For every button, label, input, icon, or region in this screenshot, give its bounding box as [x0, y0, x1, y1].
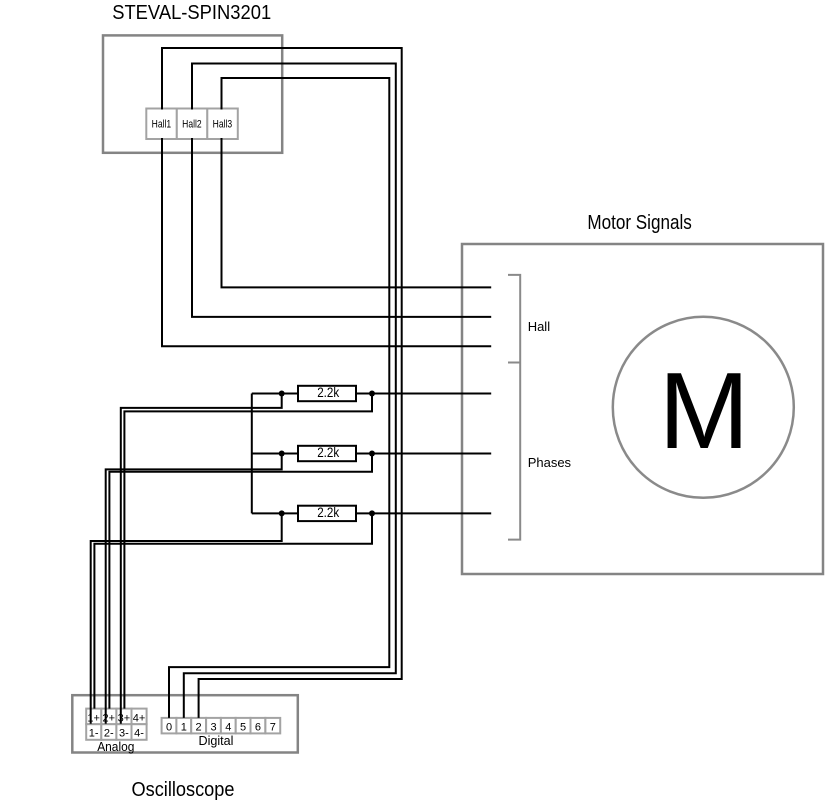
wire R2 right to scope 2+: [109, 454, 372, 709]
wire R3 right to scope 1+: [94, 513, 372, 708]
svg-text:2: 2: [196, 721, 202, 733]
STEVAL-SPIN3201 board box: [103, 35, 282, 152]
svg-text:Analog: Analog: [97, 739, 134, 754]
wire R1 right to scope 3+: [124, 394, 372, 709]
wire Hall2 bottom: down, right to motor Hall stub: [192, 138, 491, 317]
wire phase 2 to motor: [357, 453, 492, 455]
svg-text:6: 6: [255, 721, 261, 733]
wire R1 left to scope 3-: [121, 394, 282, 724]
wire Hall2 top: up, right, down, left to Digital 1: [184, 64, 396, 718]
svg-text:Oscilloscope: Oscilloscope: [132, 778, 235, 801]
bracket Hall/Phases: [508, 275, 520, 540]
Oscilloscope box: [72, 695, 297, 752]
wire phase 1 to motor: [357, 393, 492, 395]
wire Hall3 top: up, right, down, left to Digital 0: [169, 78, 389, 718]
junction dot R3 right: [369, 510, 375, 516]
resistor R2 2.2k: [298, 444, 356, 461]
svg-text:1+: 1+: [87, 712, 100, 724]
svg-text:3-: 3-: [119, 728, 129, 740]
svg-text:Hall1: Hall1: [152, 118, 172, 130]
svg-text:Motor Signals: Motor Signals: [587, 211, 692, 234]
svg-text:4+: 4+: [133, 712, 146, 724]
svg-text:2.2k: 2.2k: [317, 444, 340, 460]
wire phase 3 to motor: [357, 512, 492, 514]
svg-text:4: 4: [225, 721, 231, 733]
junction dot R3 left: [279, 510, 285, 516]
svg-text:M: M: [659, 350, 750, 472]
svg-text:Hall3: Hall3: [213, 118, 233, 130]
junction dot R2 right: [369, 451, 375, 457]
svg-text:3+: 3+: [118, 712, 131, 724]
wire R2 left to scope 2-: [106, 454, 282, 724]
wire Hall1 top: up, right, down, left to Digital 2: [162, 48, 402, 718]
svg-text:2.2k: 2.2k: [317, 384, 340, 400]
connector Hall3 pin cell: [207, 109, 238, 140]
svg-text:0: 0: [166, 721, 172, 733]
svg-text:2.2k: 2.2k: [317, 504, 340, 520]
wire Hall1 bottom: down, right to motor Hall stub: [162, 138, 491, 346]
junction dot R2 left: [279, 451, 285, 457]
svg-text:3: 3: [210, 721, 216, 733]
svg-text:1: 1: [181, 721, 187, 733]
svg-text:STEVAL-SPIN3201: STEVAL-SPIN3201: [112, 1, 271, 24]
Digital connector pins: [162, 718, 281, 734]
wire R3 left to scope 1-: [91, 513, 282, 723]
svg-text:Digital: Digital: [199, 733, 234, 748]
wire Hall3 bottom: down, right to motor Hall stub: [222, 138, 492, 287]
resistor R1 2.2k: [298, 384, 356, 401]
svg-text:2-: 2-: [104, 728, 114, 740]
resistor R3 2.2k: [298, 504, 356, 521]
Analog connector pins: [86, 709, 146, 740]
wire star point vertical: [251, 394, 253, 514]
junction dot R1 right: [369, 391, 375, 397]
motor M1 circle: [613, 317, 794, 498]
Motor Signals box: [462, 244, 823, 574]
svg-text:Phases: Phases: [528, 455, 572, 470]
svg-text:7: 7: [270, 721, 276, 733]
svg-text:4-: 4-: [134, 728, 144, 740]
svg-text:2+: 2+: [103, 712, 116, 724]
junction dot R1 left: [279, 391, 285, 397]
svg-text:5: 5: [240, 721, 246, 733]
wire star stub row 3: [252, 512, 298, 514]
svg-text:Hall2: Hall2: [182, 118, 202, 130]
connector Hall1 pin cell: [146, 109, 177, 140]
svg-text:1-: 1-: [89, 728, 99, 740]
connector Hall2 pin cell: [177, 109, 208, 140]
svg-text:Hall: Hall: [528, 319, 551, 334]
wire star stub row 1: [252, 393, 298, 395]
wire star stub row 2: [252, 453, 298, 455]
